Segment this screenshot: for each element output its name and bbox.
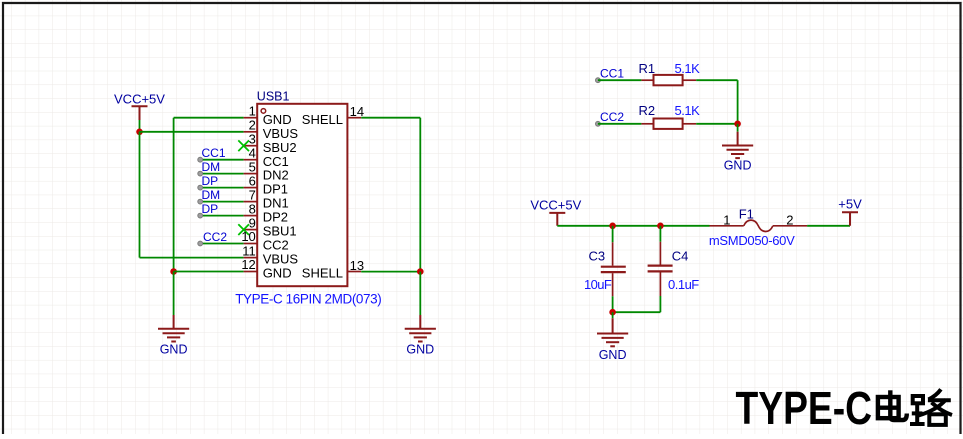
node CC2 stub pin10 bbox=[198, 230, 244, 246]
svg-text:TYPE-C: TYPE-C bbox=[736, 382, 873, 434]
wire SHELL down bbox=[419, 272, 421, 315]
svg-text:SBU1: SBU1 bbox=[263, 224, 297, 239]
wire VCC vertical bbox=[139, 132, 141, 258]
ground symbol (right of USB1) bbox=[405, 315, 436, 342]
node junction C3 bbox=[609, 223, 616, 230]
svg-text:TYPE-C 16PIN 2MD(073): TYPE-C 16PIN 2MD(073) bbox=[235, 291, 381, 306]
svg-text:DN2: DN2 bbox=[263, 168, 289, 183]
svg-text:R1: R1 bbox=[639, 61, 656, 76]
wire pin13 SHELL bbox=[361, 271, 420, 273]
node CC1 stub bbox=[596, 67, 642, 83]
svg-text:12: 12 bbox=[241, 257, 255, 272]
ground symbol (left) bbox=[158, 315, 189, 342]
power flag VCC+5V (left) bbox=[114, 91, 165, 120]
wire GND down bbox=[173, 272, 175, 316]
svg-text:DP: DP bbox=[202, 174, 219, 188]
svg-text:DM: DM bbox=[202, 160, 221, 174]
no-connect X pin9 bbox=[238, 224, 249, 235]
node junction VBUS bbox=[136, 129, 143, 136]
wire main rail bbox=[557, 225, 709, 227]
svg-text:5: 5 bbox=[249, 159, 256, 174]
wire C3 bottom bbox=[612, 296, 614, 312]
wire pin2 VBUS horizontal bbox=[140, 131, 244, 133]
svg-text:DP1: DP1 bbox=[263, 182, 288, 197]
wire pin1 GND horizontal bbox=[174, 117, 244, 119]
svg-text:2: 2 bbox=[249, 118, 256, 133]
resistor R1 bbox=[639, 61, 701, 85]
pin stubs right (pins 14,13) bbox=[347, 118, 361, 272]
node junction C4 bbox=[657, 223, 664, 230]
svg-text:0.1uF: 0.1uF bbox=[668, 277, 699, 292]
wire VCC stem bbox=[139, 120, 141, 132]
wire pin11 VBUS horizontal bbox=[140, 257, 244, 259]
node junction cap-GND bbox=[609, 309, 616, 316]
wire down to ground bbox=[612, 312, 614, 318]
pin numbers left bbox=[241, 103, 255, 272]
node CC2 stub bbox=[596, 110, 642, 126]
ground symbol (capacitors) bbox=[597, 318, 628, 346]
svg-text:10: 10 bbox=[241, 229, 255, 244]
svg-text:CC1: CC1 bbox=[600, 67, 624, 81]
node DP stub pin6 bbox=[198, 174, 244, 190]
svg-text:CC2: CC2 bbox=[600, 110, 624, 124]
wire fuse to +5V bbox=[807, 225, 850, 227]
svg-text:GND: GND bbox=[599, 348, 627, 362]
svg-text:2: 2 bbox=[786, 213, 793, 228]
wire GND vertical bbox=[173, 118, 175, 272]
pin names bbox=[263, 112, 299, 281]
ground symbol (resistors) bbox=[722, 132, 753, 158]
svg-text:CC1: CC1 bbox=[263, 154, 289, 169]
svg-text:CC1: CC1 bbox=[202, 146, 226, 160]
svg-text:1: 1 bbox=[249, 103, 256, 118]
svg-text:DP: DP bbox=[202, 202, 219, 216]
pin names SHELL bbox=[302, 112, 343, 281]
svg-text:USB1: USB1 bbox=[257, 90, 290, 104]
svg-text:3: 3 bbox=[249, 131, 256, 146]
pin numbers right bbox=[350, 104, 364, 273]
resistor R2 bbox=[639, 103, 701, 129]
node junction SHELL-GND bbox=[417, 268, 424, 275]
svg-text:10uF: 10uF bbox=[584, 277, 612, 292]
wire R2 to junction bbox=[696, 123, 737, 125]
svg-text:GND: GND bbox=[160, 343, 188, 357]
svg-text:CC2: CC2 bbox=[203, 230, 227, 244]
fuse F1 bbox=[709, 206, 807, 248]
wire C3-C4 bottom rail bbox=[613, 311, 661, 313]
svg-text:C3: C3 bbox=[589, 248, 606, 263]
connector USB1 body bbox=[257, 104, 347, 286]
svg-text:F1: F1 bbox=[739, 206, 754, 221]
no-connect X pin3 bbox=[238, 140, 249, 151]
wire R1 to corner bbox=[696, 79, 737, 81]
svg-text:GND: GND bbox=[724, 159, 752, 173]
svg-text:R2: R2 bbox=[639, 103, 656, 118]
title hanzi 电 bbox=[878, 390, 907, 420]
svg-text:6: 6 bbox=[249, 173, 256, 188]
wire C4 bottom bbox=[659, 296, 661, 312]
node junction GND bbox=[170, 268, 177, 275]
capacitor C3 bbox=[584, 226, 626, 296]
svg-text:CC2: CC2 bbox=[263, 238, 289, 253]
svg-text:8: 8 bbox=[249, 201, 256, 216]
svg-text:DM: DM bbox=[202, 188, 221, 202]
node CC1 stub pin4 bbox=[198, 146, 244, 162]
svg-text:VBUS: VBUS bbox=[263, 126, 299, 141]
svg-text:5.1K: 5.1K bbox=[675, 61, 701, 76]
power flag +5V bbox=[838, 197, 862, 226]
power flag VCC+5V (right) bbox=[530, 197, 581, 226]
svg-text:C4: C4 bbox=[672, 248, 689, 263]
pin stubs left (pins 1-12) bbox=[244, 118, 258, 272]
svg-text:mSMD050-60V: mSMD050-60V bbox=[709, 233, 795, 248]
svg-text:DP2: DP2 bbox=[263, 210, 288, 225]
wire pin14 SHELL bbox=[361, 117, 420, 119]
capacitor C4 bbox=[648, 226, 700, 296]
svg-text:9: 9 bbox=[249, 215, 256, 230]
svg-text:SHELL: SHELL bbox=[302, 266, 343, 281]
svg-text:VCC+5V: VCC+5V bbox=[530, 197, 581, 212]
svg-text:GND: GND bbox=[263, 266, 292, 281]
svg-text:7: 7 bbox=[249, 187, 256, 202]
svg-text:VCC+5V: VCC+5V bbox=[114, 91, 165, 106]
node DM stub pin5 bbox=[198, 160, 244, 176]
wire pin12 GND horizontal bbox=[174, 271, 244, 273]
svg-text:4: 4 bbox=[249, 145, 256, 160]
wire corner down bbox=[737, 80, 739, 124]
svg-text:VBUS: VBUS bbox=[263, 252, 299, 267]
pin 1 indicator circle bbox=[261, 109, 266, 114]
wire junction down bbox=[737, 124, 739, 132]
svg-text:SBU2: SBU2 bbox=[263, 140, 297, 155]
title hanzi 路 bbox=[910, 389, 952, 425]
node DP stub pin8 bbox=[198, 202, 244, 218]
svg-text:GND: GND bbox=[406, 343, 434, 357]
svg-text:5.1K: 5.1K bbox=[675, 103, 701, 118]
wire SHELL vertical bbox=[419, 118, 421, 272]
svg-text:SHELL: SHELL bbox=[302, 112, 343, 127]
svg-text:DN1: DN1 bbox=[263, 196, 289, 211]
svg-text:11: 11 bbox=[242, 243, 256, 258]
svg-text:1: 1 bbox=[723, 213, 730, 228]
svg-text:+5V: +5V bbox=[838, 197, 862, 212]
svg-text:GND: GND bbox=[263, 112, 292, 127]
node DM stub pin7 bbox=[198, 188, 244, 204]
node junction R-GND bbox=[734, 121, 741, 128]
